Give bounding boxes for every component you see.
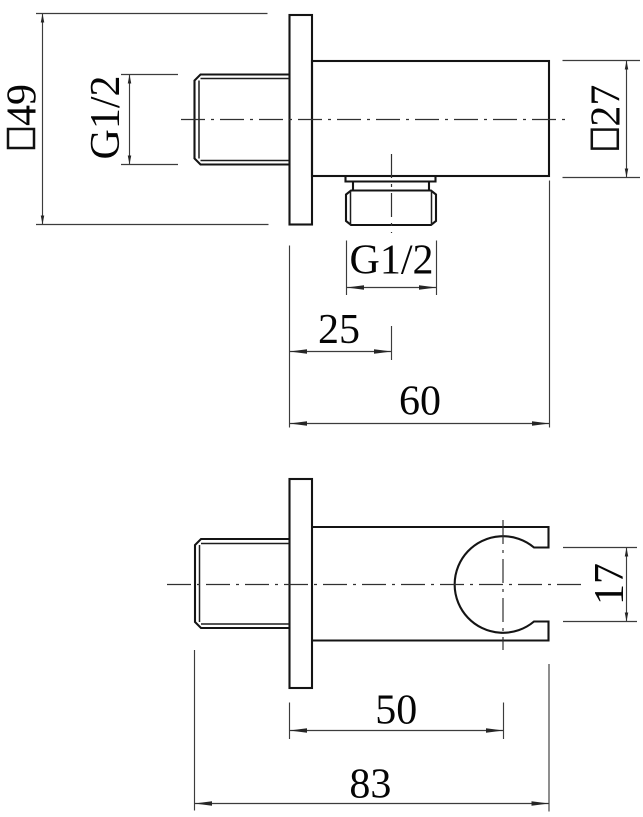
outlet nut thread relief lines bbox=[351, 191, 432, 226]
inlet thread nipple G1/2 (top view) bbox=[195, 75, 290, 165]
dim 49 arrow up bbox=[41, 14, 45, 23]
dim 17 extension lines bbox=[563, 548, 637, 622]
dim 83 arrow right bbox=[532, 801, 550, 806]
dim 17 dimension line bbox=[626, 548, 628, 622]
holder vertical centerline bbox=[502, 520, 504, 650]
dim 25 right extension line bbox=[391, 326, 393, 360]
svg-text:27: 27 bbox=[583, 85, 629, 127]
dim 60 dimension line bbox=[290, 423, 550, 425]
dim 49 extension lines bbox=[36, 14, 269, 225]
dim 50 arrow right bbox=[486, 728, 504, 733]
horizontal centerline (top view) bbox=[181, 119, 566, 121]
dim 60 right extension line bbox=[549, 181, 551, 428]
dim G1/2 inlet dimension line bbox=[129, 75, 131, 165]
dim G1/2 inlet arrow up bbox=[128, 75, 132, 84]
dim 25 arrow left bbox=[290, 349, 308, 354]
svg-text:60: 60 bbox=[399, 379, 441, 425]
dim 27 extension lines bbox=[563, 61, 641, 178]
dim G1/2 outlet arrow left bbox=[347, 285, 365, 290]
dim G1/2 inlet arrow down bbox=[128, 156, 132, 165]
dim 49 dimension line bbox=[42, 14, 44, 225]
inlet thread nipple G1/2 (bottom view) bbox=[195, 539, 290, 628]
inlet nipple thread root lines (bottom view) bbox=[200, 544, 290, 625]
dim 27 arrow down bbox=[625, 169, 629, 178]
dim 83 left extension line bbox=[194, 650, 196, 811]
inlet nipple thread root lines (top view) bbox=[199, 79, 290, 161]
dim 27 arrow up bbox=[625, 61, 629, 70]
dim 83 right extension line bbox=[548, 664, 550, 812]
dim 17 arrow up bbox=[625, 548, 629, 557]
dim 50 extension lines bbox=[290, 703, 504, 740]
outlet vertical centerline bbox=[391, 154, 393, 233]
dim 27 dimension line bbox=[626, 61, 628, 178]
dim G1/2 outlet extension lines bbox=[347, 241, 437, 296]
dim G1/2 outlet arrow right bbox=[419, 285, 437, 290]
svg-text:25: 25 bbox=[318, 307, 360, 353]
wall flange plate (top view) bbox=[290, 15, 313, 225]
dim 49 arrow down bbox=[41, 216, 45, 225]
svg-text:83: 83 bbox=[349, 762, 391, 808]
dim 60 arrow left bbox=[290, 421, 308, 426]
dim 50 dimension line bbox=[290, 730, 504, 732]
svg-text:49: 49 bbox=[0, 84, 46, 126]
svg-text:17: 17 bbox=[587, 563, 633, 605]
dim 17 arrow down bbox=[625, 613, 629, 622]
svg-text:50: 50 bbox=[375, 688, 417, 734]
dim G1/2 inlet label bbox=[83, 76, 129, 160]
dim G1/2 outlet dimension line bbox=[347, 287, 437, 289]
dim 49 label bbox=[0, 84, 46, 148]
dim 25 arrow right bbox=[374, 349, 392, 354]
svg-text:G1/2: G1/2 bbox=[350, 238, 434, 284]
horizontal centerline (bottom view) bbox=[167, 584, 581, 586]
dim 17 label bbox=[587, 563, 633, 605]
dim 60 arrow right bbox=[532, 421, 550, 426]
elbow body (top view) bbox=[312, 61, 549, 176]
dim 83 dimension line bbox=[195, 803, 550, 805]
dim 83 arrow left bbox=[195, 801, 213, 806]
wall flange plate (bottom view) bbox=[290, 479, 313, 688]
outlet flange step bbox=[346, 176, 436, 182]
elbow body with handset holder (bottom view) bbox=[312, 527, 549, 641]
outlet nut G1/2 bbox=[346, 191, 436, 226]
svg-text:G1/2: G1/2 bbox=[83, 76, 129, 160]
dim G1/2 inlet extension lines bbox=[121, 75, 178, 165]
dim 25 dimension line bbox=[290, 351, 392, 353]
outlet collar step bbox=[353, 182, 429, 191]
dim 50 arrow left bbox=[290, 728, 308, 733]
dim 27 label bbox=[583, 85, 629, 149]
dim 25 left extension line bbox=[289, 246, 291, 428]
